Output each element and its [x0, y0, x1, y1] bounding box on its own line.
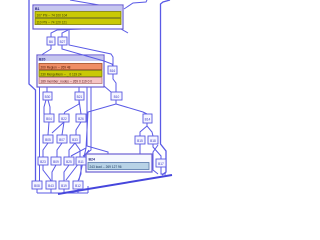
svg-text:110 Phi -- 74 120 121: 110 Phi -- 74 120 121 — [37, 20, 68, 24]
wire B30 to B04 tent left — [44, 100, 46, 114]
wire into B20 top — [41, 45, 51, 56]
wire B20 to B30 — [46, 87, 48, 92]
svg-text:B16: B16 — [110, 69, 116, 73]
wire B25 to B19 — [64, 165, 69, 181]
svg-text:B22: B22 — [61, 117, 67, 121]
node B6 — [47, 37, 55, 45]
member nodes row — [39, 78, 102, 84]
node B05 — [43, 135, 53, 143]
svg-text:B18: B18 — [150, 139, 156, 143]
wire B10 stub — [115, 100, 117, 104]
node B11 — [76, 157, 86, 165]
wire B05 to row D left — [43, 143, 48, 157]
wire crossing left of B17 — [153, 145, 158, 174]
svg-text:B10: B10 — [114, 95, 120, 99]
wire B21 to B26 — [79, 100, 81, 114]
svg-text:B12: B12 — [75, 184, 81, 188]
block B1 — [33, 5, 123, 29]
svg-text:B17: B17 — [158, 162, 164, 166]
svg-text:B43: B43 — [48, 184, 54, 188]
node B33 — [70, 135, 80, 143]
node B16 — [108, 66, 117, 74]
svg-text:189 member_nodes -- 269 0 119: 189 member_nodes -- 269 0 119 0 0 — [41, 79, 93, 83]
wire B14 split left — [140, 123, 147, 136]
wire B30 to B04 tent right — [48, 100, 50, 114]
svg-text:B6: B6 — [49, 40, 53, 44]
svg-text:B11: B11 — [78, 160, 84, 164]
svg-text:B20: B20 — [39, 58, 45, 62]
svg-text:B30: B30 — [45, 95, 51, 99]
wire B20 right drop to B11 — [83, 87, 91, 156]
svg-text:B24: B24 — [89, 158, 95, 162]
wire B10 fan left — [71, 104, 116, 156]
svg-text:B08: B08 — [34, 184, 40, 188]
wire shallow rise under B1 — [51, 28, 120, 38]
node B17 right — [156, 159, 166, 167]
phi row 1 — [35, 12, 121, 18]
node B18 — [148, 136, 158, 144]
node B10 — [111, 92, 122, 100]
wire B33 to B11 — [75, 143, 80, 157]
node B08 — [32, 181, 42, 189]
node B25 — [64, 157, 74, 165]
wire B16 to B10 — [113, 74, 116, 92]
wire B17 drop — [161, 167, 166, 174]
node B09 — [51, 157, 61, 165]
svg-text:B19: B19 — [61, 184, 67, 188]
wire B22 to B05 crossing — [52, 122, 64, 133]
wire B07 to row D — [57, 143, 62, 157]
node B30 — [43, 92, 52, 100]
wire B18 to B17 — [153, 144, 161, 159]
node B22 — [59, 114, 69, 122]
svg-text:230 MergeMem -- _ 0 119 24: 230 MergeMem -- _ 0 119 24 — [41, 72, 82, 76]
wire crossing to B19 — [66, 150, 89, 180]
node B15 — [135, 136, 145, 144]
wire row D2 to B43 — [52, 165, 56, 181]
svg-text:B33: B33 — [72, 138, 78, 142]
node B12 — [73, 181, 83, 189]
svg-text:B23: B23 — [40, 160, 46, 164]
wire stub b27 — [62, 30, 68, 37]
wire second left vertical — [39, 87, 41, 181]
wire bus stub 3 — [63, 189, 65, 193]
wire row D to B43 — [43, 165, 51, 181]
wire top into B1 — [70, 0, 99, 5]
wire corner stub — [121, 29, 128, 33]
wire B33 to B25 — [69, 143, 75, 157]
block B24 — [86, 154, 152, 172]
wire crossing to B12 — [79, 148, 86, 180]
wire B14 split right — [147, 123, 153, 136]
svg-text:B25: B25 — [66, 160, 72, 164]
wire B15 to B24 — [139, 144, 141, 155]
node B07 — [57, 135, 67, 143]
wire diagonal to box B16 — [69, 30, 113, 66]
wire B04 to B05 — [48, 122, 49, 135]
wire B1 top-right loop — [124, 0, 147, 9]
load row — [88, 163, 149, 170]
svg-text:B09: B09 — [53, 160, 59, 164]
svg-text:B15: B15 — [137, 139, 143, 143]
svg-text:107 Phi -- 74 100 104: 107 Phi -- 74 100 104 — [37, 13, 68, 17]
wire B10 fan right to B14 — [116, 104, 147, 114]
node B27 — [58, 37, 67, 45]
wire bus stub 2 — [50, 189, 52, 193]
wire B22 to B07 — [62, 122, 64, 135]
svg-text:B07: B07 — [59, 138, 65, 142]
node B19 — [59, 181, 69, 189]
wire B11 down to B12 — [78, 165, 81, 181]
wire bus stub 1 — [36, 189, 38, 193]
svg-text:B21: B21 — [77, 95, 83, 99]
node B23 — [38, 157, 48, 165]
svg-text:B26: B26 — [78, 117, 84, 121]
wire bus stub 4 — [77, 189, 79, 193]
wire bus horizontal — [37, 192, 88, 194]
node B21 — [75, 92, 84, 100]
region row — [39, 64, 102, 70]
wire bus hook — [87, 186, 89, 193]
wire B20 to B21 — [78, 87, 80, 92]
node B14 — [143, 114, 152, 123]
wire B26 to B33 — [76, 122, 81, 135]
block B20 — [37, 55, 104, 87]
phi row 2 — [35, 19, 121, 25]
wire second diagonal to B16 over B20 — [62, 45, 113, 66]
node B04 — [44, 114, 54, 122]
svg-text:B1: B1 — [35, 7, 40, 11]
svg-text:B27: B27 — [60, 40, 66, 44]
svg-text:B14: B14 — [145, 118, 151, 122]
wire thick bottom diagonal — [58, 175, 172, 194]
svg-text:B04: B04 — [46, 117, 52, 121]
svg-text:200 Region -- 269 48: 200 Region -- 269 48 — [41, 65, 71, 69]
svg-text:243 load -- 269 127 96: 243 load -- 269 127 96 — [90, 165, 122, 169]
wire B21 to B22 — [64, 100, 79, 114]
node B26 — [76, 114, 86, 122]
mergemem row — [39, 71, 102, 77]
node B43 — [46, 181, 56, 189]
wire B20 right drop to B24 — [87, 87, 108, 155]
wire left long vertical — [29, 0, 36, 181]
svg-text:B05: B05 — [45, 138, 51, 142]
wire B20 corner to B10 — [104, 86, 111, 92]
wire long right vertical — [161, 0, 171, 175]
